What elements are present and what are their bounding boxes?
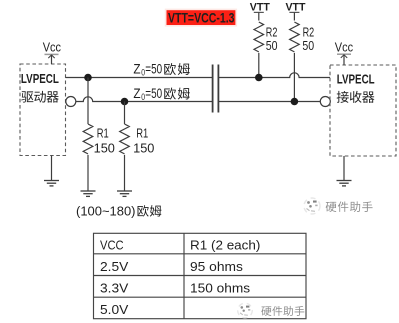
driver label 驱动器 [21, 91, 33, 102]
resistor R2a zigzag [254, 22, 264, 52]
label (100~180)欧姆 [76, 204, 161, 218]
svg-text:Vcc: Vcc [335, 41, 353, 55]
ground (receiver) stub wire [343, 156, 345, 181]
svg-text:2.5V: 2.5V [100, 259, 129, 274]
svg-text:LVPECL: LVPECL [337, 71, 375, 86]
input bubble (receiver inverted in) [320, 97, 330, 107]
resistor R2b bottom lead (crosses top trace, to bottom trace) [293, 53, 295, 102]
svg-text:150: 150 [133, 141, 154, 156]
output bubble (driver inverted out) [66, 97, 76, 107]
svg-text:VCC: VCC [100, 238, 124, 253]
svg-text:R1 (2 each): R1 (2 each) [190, 238, 260, 253]
svg-text:(100~180): (100~180) [76, 204, 136, 218]
svg-text:50: 50 [266, 38, 278, 53]
ground (receiver) symbol [337, 181, 352, 186]
node: junction dot on bottom trace at R1b [121, 98, 129, 106]
resistor R1b zigzag [120, 124, 130, 154]
node: junction dot top trace at R2a [255, 74, 263, 82]
watermark logo (in table) [238, 303, 253, 318]
svg-text:Z: Z [133, 85, 141, 101]
svg-text:Z: Z [133, 60, 141, 76]
resistor R2b top lead [293, 12, 295, 20]
wire: top trace left segment (driver out+ to capacitor) [66, 77, 213, 79]
receiver label 接收器 [337, 91, 349, 103]
resistor R2a top lead [258, 12, 260, 20]
watermark text 硬件助手 (upper) [326, 202, 337, 212]
svg-text:Vcc: Vcc [43, 41, 61, 55]
resistor R2a bottom lead [258, 53, 260, 78]
svg-text:150: 150 [94, 141, 115, 156]
label Z0=50欧姆 (top trace) [133, 60, 189, 77]
wire: bottom trace left segment with hop over R1a lead [76, 97, 212, 102]
resistor R1a lead from top trace [87, 78, 89, 125]
resistor R1a bottom lead [87, 155, 89, 191]
svg-text:R1: R1 [97, 126, 109, 141]
wire: top trace right segment with hop over R2b lead [219, 73, 330, 78]
ground (R1a) [81, 191, 96, 196]
resistor R2b zigzag [290, 22, 300, 52]
svg-text:50: 50 [302, 38, 314, 53]
svg-text:VTT: VTT [286, 1, 306, 13]
label Z0=50欧姆 (bottom trace) [133, 85, 189, 102]
driver box U1 (LVPECL driver, dashed outline) [20, 64, 66, 156]
power Vcc (driver) symbol [45, 54, 59, 64]
svg-text:95 ohms: 95 ohms [190, 259, 243, 274]
annotation VTT=VCC-1.3 highlighted [165, 9, 237, 27]
node: junction dot on top trace at R1a [84, 74, 92, 82]
capacitor C1 plate right [217, 65, 219, 113]
svg-text:VTT: VTT [250, 1, 270, 13]
svg-text:VTT=VCC-1.3: VTT=VCC-1.3 [168, 9, 235, 25]
watermark logo (upper) [304, 198, 320, 214]
power Vcc (receiver) symbol [337, 54, 351, 65]
svg-text:R2: R2 [266, 24, 278, 39]
resistor R1b bottom lead [124, 155, 126, 191]
svg-text:=50: =50 [145, 60, 162, 76]
receiver box U2 (LVPECL receiver, dashed outline) [330, 65, 396, 156]
resistor R1a zigzag [83, 124, 93, 154]
ground (driver) symbol [44, 181, 59, 186]
svg-text:LVPECL: LVPECL [21, 71, 59, 86]
svg-text:=50: =50 [145, 85, 162, 101]
node: junction dot bottom trace at R2b [291, 98, 299, 106]
svg-text:5.0V: 5.0V [100, 302, 129, 317]
ground (R1b) [117, 191, 132, 196]
table: component value table [94, 233, 307, 318]
wire: bottom trace right segment [219, 101, 320, 103]
svg-text:R1: R1 [136, 126, 148, 141]
ground (driver) stub wire [51, 156, 53, 181]
resistor R1b lead from bottom trace [124, 102, 126, 125]
capacitor C1 plate left [212, 65, 214, 113]
svg-text:R2: R2 [303, 24, 315, 39]
svg-text:150 ohms: 150 ohms [190, 281, 251, 296]
svg-text:3.3V: 3.3V [100, 281, 129, 296]
watermark text 硬件助手 (in table) [261, 306, 271, 315]
